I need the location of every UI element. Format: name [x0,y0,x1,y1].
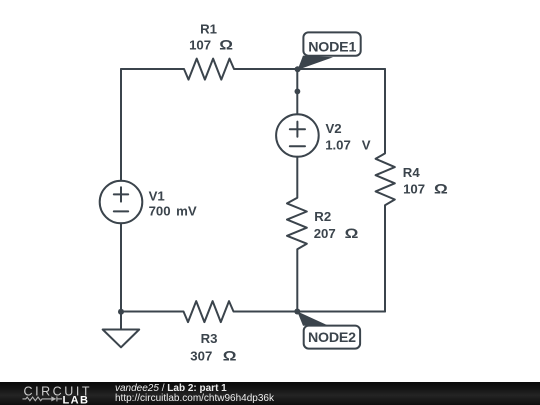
svg-text:307: 307 [190,349,212,364]
svg-text:V: V [362,138,371,153]
svg-text:V2: V2 [326,121,342,136]
svg-text:R3: R3 [201,331,218,346]
svg-text:V1: V1 [149,188,165,203]
svg-text:Ω: Ω [434,182,448,197]
svg-text:NODE1: NODE1 [308,40,356,56]
svg-text:R2: R2 [314,209,331,224]
svg-text:mV: mV [176,203,197,218]
svg-text:Ω: Ω [219,38,233,53]
svg-text:Ω: Ω [223,349,237,364]
svg-text:LAB: LAB [63,394,90,405]
svg-text:700: 700 [149,203,171,218]
svg-text:107: 107 [189,38,211,53]
svg-text:Ω: Ω [345,227,359,242]
svg-text:R4: R4 [403,165,421,180]
svg-text:207: 207 [314,226,336,241]
svg-text:R1: R1 [200,21,217,36]
svg-text:107: 107 [403,182,425,197]
svg-text:1.07: 1.07 [325,138,351,153]
svg-text:NODE2: NODE2 [308,330,356,346]
